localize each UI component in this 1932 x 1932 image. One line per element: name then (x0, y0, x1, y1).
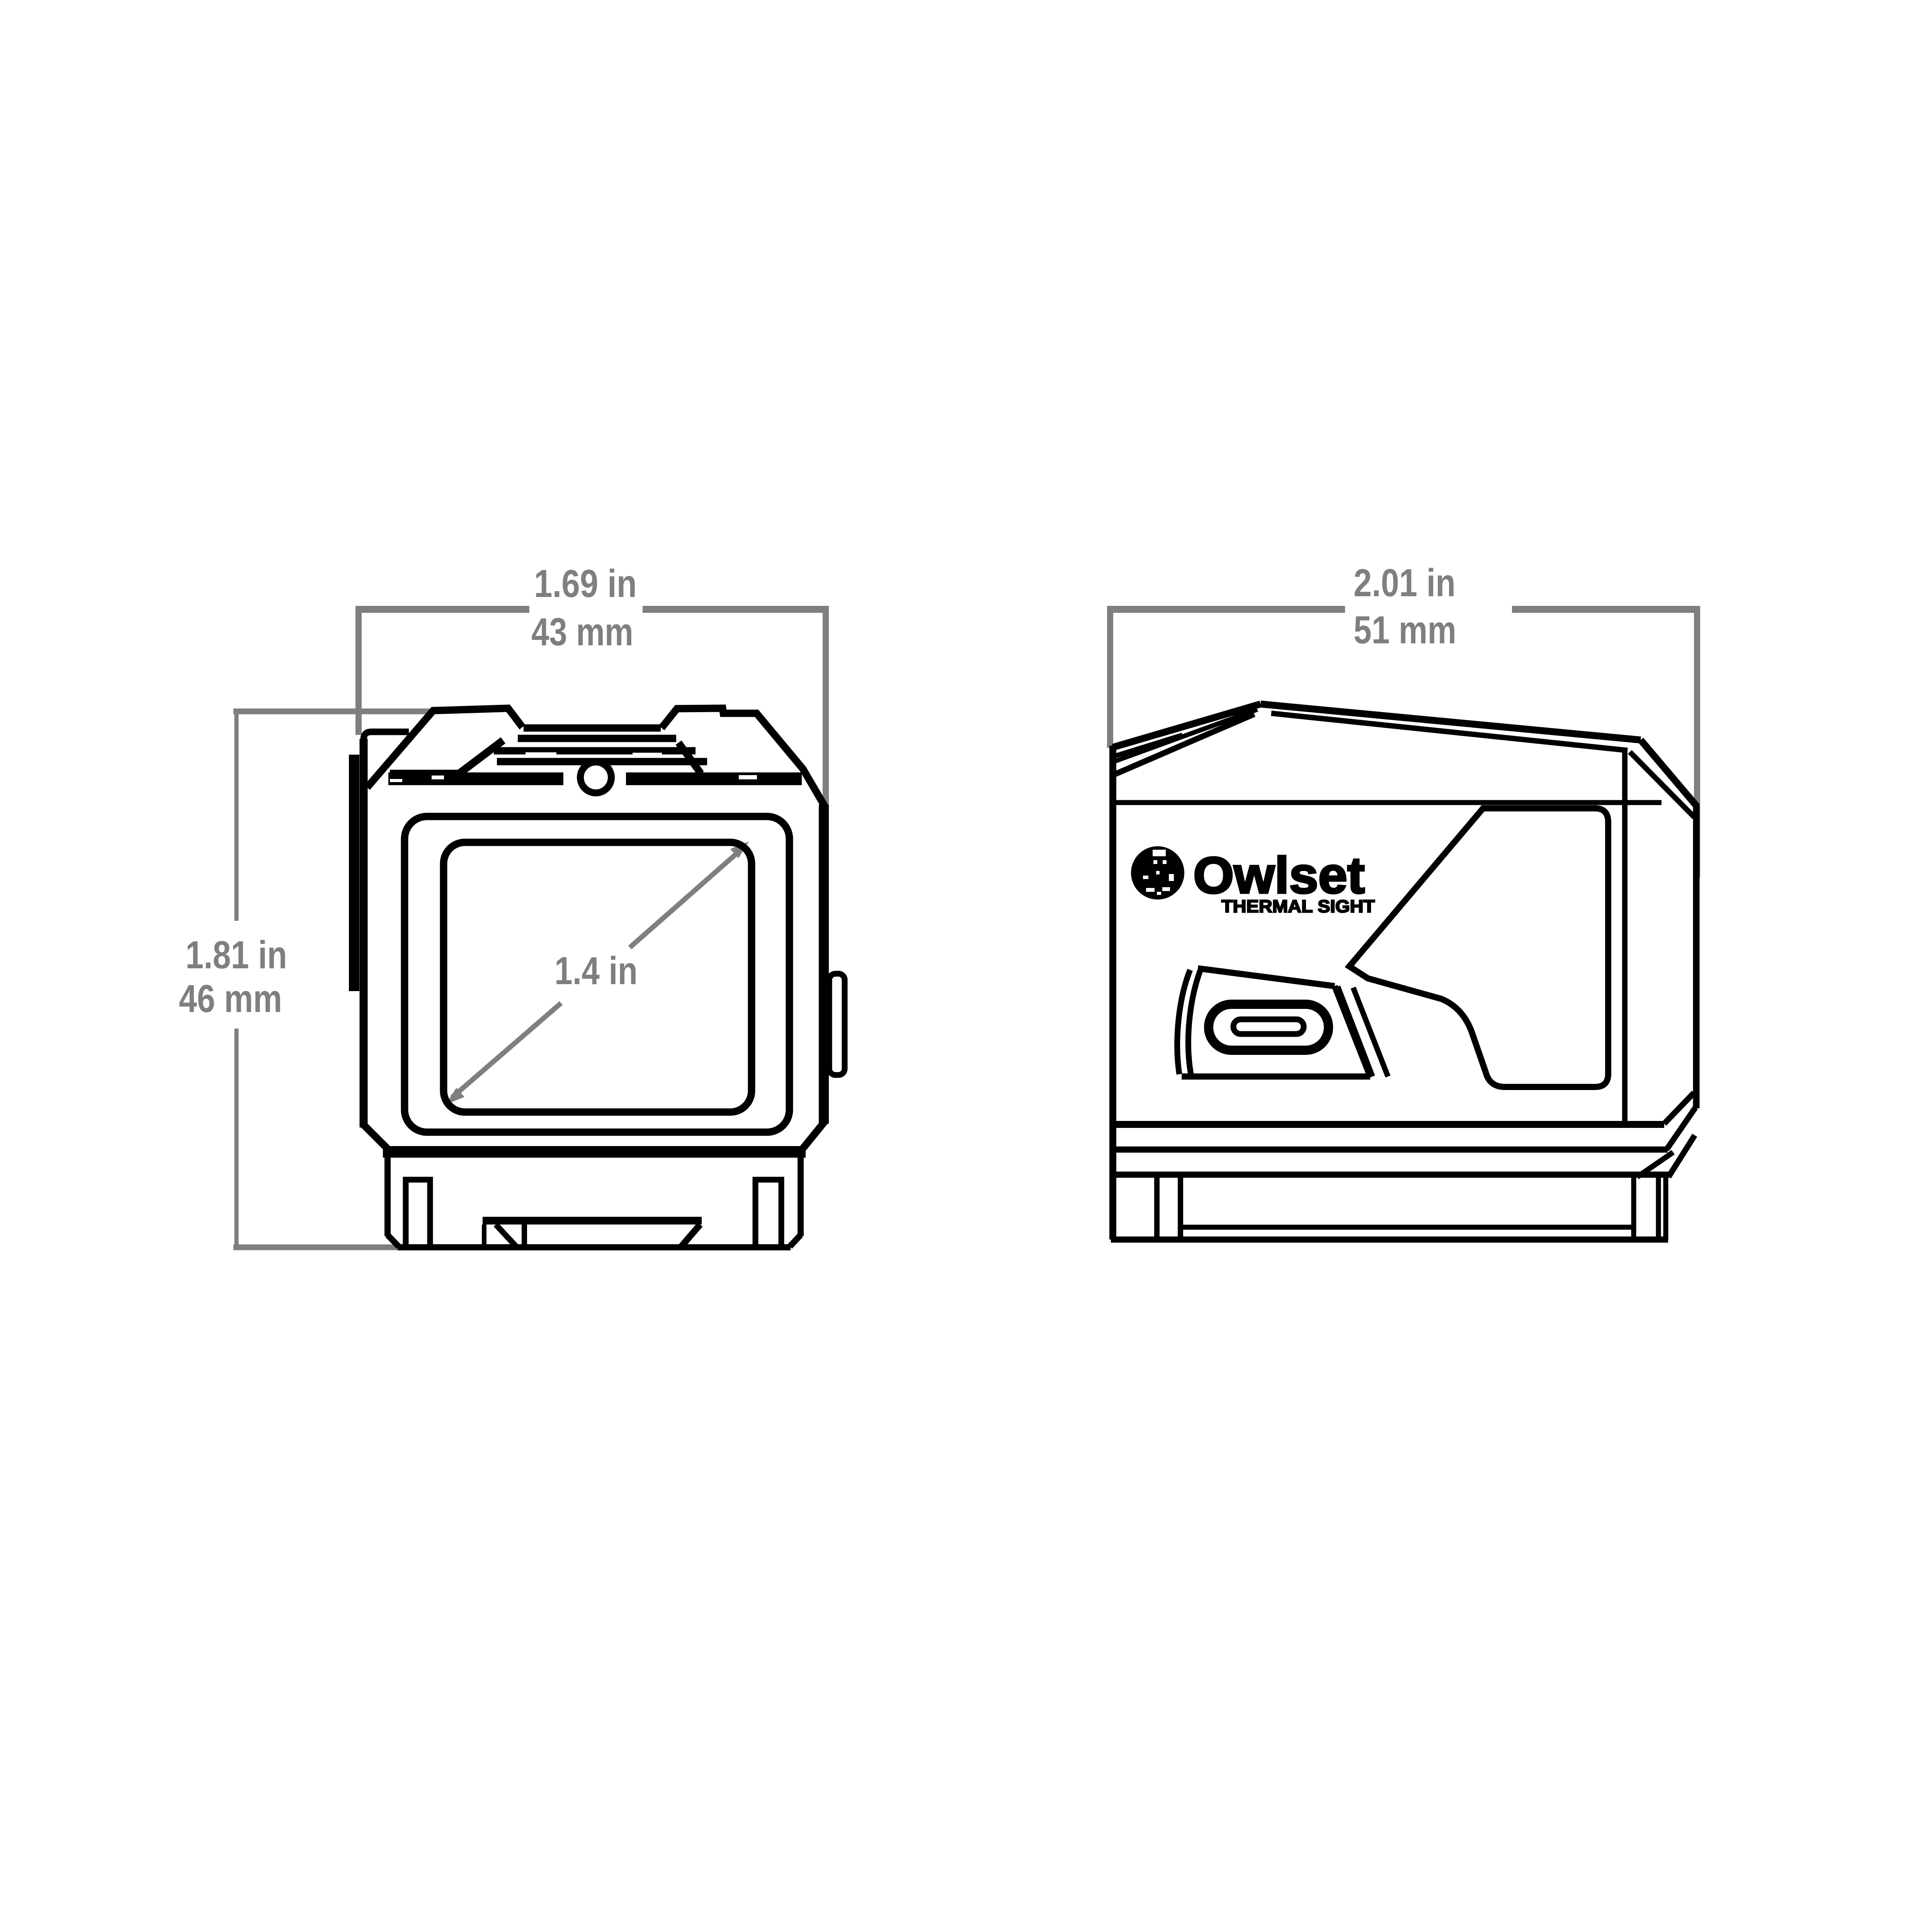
right wing inner diagonal (679, 743, 701, 774)
dimension line: front width 1.69in/43mm (359, 606, 826, 613)
extension line: front width left (355, 606, 362, 735)
usb door top edge (1198, 968, 1335, 986)
extension line: side width right (1694, 606, 1700, 877)
mount right foot (755, 1180, 781, 1247)
right wing bottom slab (626, 772, 802, 785)
dimension line: side width 2.01in/51mm (1110, 606, 1697, 613)
extension line: front width right (823, 606, 829, 808)
svg-text:1.4 in: 1.4 in (554, 949, 638, 993)
usb door right edge (1335, 986, 1370, 1077)
right chamfer outer (1667, 1107, 1696, 1150)
right chamfer lower inner (1637, 1152, 1673, 1177)
mount flange bar (383, 1146, 806, 1158)
side body right outer edge (1693, 804, 1700, 1108)
svg-text:2.01 in: 2.01 in (1354, 561, 1456, 605)
side body inner right edge (1622, 751, 1628, 1124)
slab white slits (390, 752, 757, 782)
right chamfer lower outer (1668, 1135, 1695, 1177)
svg-text:1.69 in: 1.69 in (534, 562, 637, 605)
side base inner rail line (1180, 1225, 1633, 1230)
mount left foot (406, 1180, 430, 1247)
extension line: front height top (233, 709, 433, 714)
side panel outline (1349, 808, 1608, 1087)
bridge line 4 (497, 758, 707, 765)
svg-text:46 mm: 46 mm (179, 977, 282, 1020)
right side button outline (829, 974, 845, 1075)
left side plate (battery door) (349, 755, 359, 991)
door separator diagonal 1 (1338, 986, 1372, 1077)
svg-text:THERMAL SIGHT: THERMAL SIGHT (1221, 896, 1375, 916)
roof upper-right slope (1260, 704, 1641, 740)
door separator diagonal 2 (1353, 988, 1388, 1077)
usb door hinge outer curve (1177, 970, 1190, 1074)
mount flange right wall (790, 1158, 801, 1247)
usb-c port outer (1209, 1004, 1328, 1050)
mount bottom line (398, 1244, 791, 1250)
side flange bottom line (1113, 1146, 1668, 1153)
screen diagonal dimension line 1.4in (452, 852, 739, 1097)
side body left edge (1109, 746, 1116, 1240)
screen bezel outer (405, 816, 789, 1132)
svg-text:Owlset: Owlset (1193, 847, 1365, 904)
roof lower-left slope (1113, 714, 1254, 775)
owl logo (1131, 846, 1184, 900)
screen bezel inner (444, 842, 752, 1112)
front body top-left corner + notch line (364, 732, 409, 740)
dovetail top bar (483, 1217, 702, 1225)
side base top line (1113, 1172, 1669, 1178)
dovetail right diagonal (681, 1225, 700, 1247)
roof mid-left slope (1113, 709, 1257, 762)
bridge line 2 (518, 735, 676, 742)
svg-text:1.81 in: 1.81 in (185, 934, 287, 977)
usb door bottom edge (1182, 1073, 1370, 1080)
extension line: front height bottom (233, 1245, 486, 1250)
roof upper-left slope (1113, 704, 1260, 747)
side base left verticals (1157, 1175, 1180, 1240)
front body bottom-right chamfer (803, 1120, 826, 1148)
arrowhead top-right of diagonal (730, 842, 749, 858)
bridge line 1 (524, 724, 661, 732)
right chamfer upper (1664, 1093, 1694, 1124)
front body bottom-left chamfer (362, 1124, 387, 1148)
top screw hole circle (580, 762, 611, 793)
side body top line (1113, 800, 1662, 805)
dovetail pocket diagonal (496, 1225, 516, 1247)
left wing inner bottom edge (390, 770, 459, 776)
left wing outline (367, 708, 522, 787)
usb door hinge inner curve (1188, 971, 1200, 1074)
dovetail pocket left edge (482, 1225, 486, 1247)
front body right edge (819, 804, 829, 1124)
mount flange left wall (388, 1158, 399, 1247)
dimension texts (179, 561, 1456, 1020)
bridge line 3 (494, 747, 696, 755)
front body left edge (360, 739, 368, 1128)
dovetail divider (522, 1225, 527, 1247)
roof right steep outer (1641, 740, 1696, 806)
side base bottom line (1111, 1236, 1668, 1243)
side base right verticals (1634, 1177, 1666, 1240)
roof lower-right slope (1271, 713, 1628, 750)
left wing bottom slab (388, 772, 563, 785)
svg-text:51 mm: 51 mm (1354, 609, 1456, 652)
side body bottom line (1113, 1121, 1664, 1128)
roof right steep inner (1630, 752, 1694, 817)
arrowhead bottom-left of diagonal (446, 1088, 464, 1104)
dimension line: front height 1.81in/46mm (235, 711, 239, 1247)
svg-text:43 mm: 43 mm (531, 611, 633, 654)
roof filler-left slope (1113, 735, 1182, 757)
left wing inner diagonal (459, 740, 503, 774)
extension line: side width left (1107, 606, 1113, 748)
usb-c port slot (1233, 1019, 1304, 1034)
right wing outline (662, 708, 825, 806)
